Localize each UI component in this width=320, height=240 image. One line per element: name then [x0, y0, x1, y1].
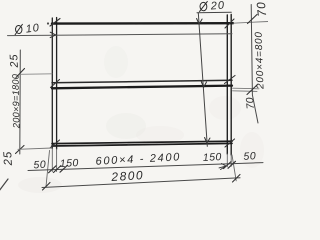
bottom dim ticks right	[224, 161, 236, 168]
svg-text:10: 10	[25, 22, 41, 36]
left dim tick lower	[16, 146, 25, 154]
svg-text:70: 70	[254, 1, 268, 18]
D20 leader arrow at bottom bar	[205, 138, 210, 144]
paper smudges	[18, 46, 264, 193]
thin bar with D10 leader	[8, 34, 233, 36]
tick right pair bottom	[225, 139, 235, 147]
tick right pair top	[225, 19, 234, 28]
bottom extension stub left bar a	[51, 149, 53, 172]
D20 leader shelf	[197, 11, 231, 14]
pencil dot artifact	[47, 22, 49, 24]
svg-text:200×4=800: 200×4=800	[253, 31, 266, 90]
svg-text:25: 25	[2, 151, 15, 167]
svg-text:150: 150	[203, 151, 223, 164]
svg-text:200×9=1800: 200×9=1800	[11, 73, 22, 129]
svg-text:50: 50	[243, 150, 256, 163]
right dimension line	[251, 5, 258, 124]
svg-text:20: 20	[209, 0, 225, 13]
middle bar pair	[52, 80, 232, 83]
left dim tick upper	[16, 69, 25, 78]
tick left pair top	[50, 19, 60, 27]
svg-text:25: 25	[8, 53, 21, 69]
label D10	[14, 22, 41, 37]
svg-text:50: 50	[33, 159, 46, 172]
left dimension line	[19, 50, 22, 154]
long extension to 2800 line left	[46, 151, 50, 187]
bottom main dimension line	[28, 163, 263, 171]
bottom extension stub left bar b	[56, 149, 58, 172]
D10 leader arrowhead	[50, 32, 56, 37]
svg-text:70: 70	[244, 97, 257, 110]
bottom extension stub right bar a	[226, 154, 228, 167]
left extension line lower	[18, 148, 52, 149]
left extension line upper	[20, 73, 52, 76]
D20 leader arrow at top bar	[197, 19, 203, 25]
tick left pair bottom	[50, 140, 60, 148]
arrow after right 150	[219, 164, 226, 170]
top thick bar	[52, 22, 233, 25]
D20 leader line	[198, 13, 207, 147]
2800 dimension line	[42, 178, 240, 188]
2800 tick right	[233, 175, 241, 183]
tick right pair middle	[225, 76, 236, 84]
label D20	[199, 0, 226, 13]
svg-text:150: 150	[60, 157, 80, 170]
svg-text:2800: 2800	[110, 168, 144, 184]
top bar right extension line	[233, 22, 268, 24]
right dim tick middle	[247, 85, 257, 95]
bottom extension stub right bar b	[230, 155, 232, 166]
middle bar right extension lines	[233, 88, 260, 91]
paper background	[0, 0, 268, 196]
long extension to 2800 line right	[232, 155, 236, 181]
tick left pair middle	[51, 80, 60, 88]
right vertical bar pair	[227, 15, 231, 156]
left vertical bar pair	[52, 18, 56, 150]
bottom bar pair	[52, 141, 232, 143]
bottom dim ticks left	[49, 165, 68, 173]
D20 leader arrow at middle bar	[201, 82, 206, 88]
right dim tick top	[248, 15, 258, 24]
2800 tick left	[43, 183, 51, 191]
corner stray mark bottom left	[0, 179, 8, 191]
